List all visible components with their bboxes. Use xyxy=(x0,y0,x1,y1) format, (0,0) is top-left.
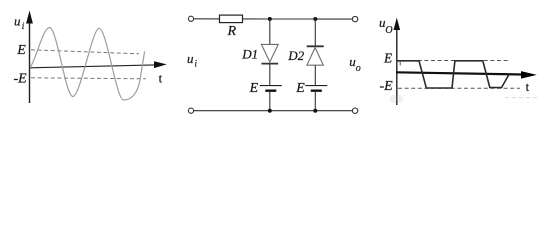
svg-text:o: o xyxy=(356,63,361,74)
wire: node B down to D2 cathode xyxy=(314,19,316,46)
svg-text:-E: -E xyxy=(14,72,28,87)
wire: D2 anode to battery E2 xyxy=(314,65,316,85)
svg-text:t: t xyxy=(526,80,530,94)
junction node D (E2 to bottom rail) xyxy=(313,109,317,113)
bottom rail wire xyxy=(194,110,353,112)
terminal: input bottom xyxy=(188,108,193,113)
terminal: output top xyxy=(352,16,357,21)
junction node B xyxy=(313,17,317,21)
svg-text:D2: D2 xyxy=(287,48,304,63)
label u_o (circuit output voltage) xyxy=(349,54,361,74)
wire: resistor R to node A xyxy=(243,18,270,20)
output clipped waveform xyxy=(397,61,509,88)
stray scan dashes below output axis xyxy=(505,97,540,99)
svg-text:E: E xyxy=(16,43,26,58)
-E level dashed line (output) xyxy=(398,87,520,89)
scan smudge near output axis bottom xyxy=(390,95,403,103)
battery E2 positive plate xyxy=(305,85,327,87)
-E level dashed line (input) xyxy=(31,78,146,79)
battery E1 negative plate xyxy=(265,89,276,91)
svg-text:D1: D1 xyxy=(241,47,258,62)
svg-text:u: u xyxy=(187,51,194,66)
wire: node A to node B xyxy=(270,18,316,20)
input sine waveform xyxy=(30,28,145,101)
terminal: output bottom xyxy=(352,108,357,113)
svg-text:E: E xyxy=(383,50,393,65)
svg-text:R: R xyxy=(227,24,237,39)
input graph vertical axis xyxy=(26,11,33,104)
terminal: input top xyxy=(188,16,193,21)
input graph t axis xyxy=(30,61,167,68)
svg-text:t: t xyxy=(159,71,163,85)
diode D1 cathode bar xyxy=(261,63,278,65)
output graph t axis (thick) xyxy=(396,71,537,79)
svg-text:E: E xyxy=(249,81,259,96)
output axis label u_O xyxy=(379,15,393,36)
wire: node B to output top terminal xyxy=(315,18,352,20)
diode D2 cathode bar xyxy=(307,45,324,47)
battery E2 negative plate xyxy=(311,89,322,91)
E level dashed line (input) xyxy=(31,50,139,54)
diode D1 xyxy=(261,44,278,62)
svg-text:E: E xyxy=(295,81,305,96)
wire: node A down to D1 anode xyxy=(269,19,271,44)
label u_i (circuit input voltage) xyxy=(187,51,198,69)
output graph vertical axis xyxy=(394,18,401,106)
junction node C (E1 to bottom rail) xyxy=(268,109,272,113)
input axis label u_i xyxy=(14,13,25,31)
battery E1 positive plate xyxy=(260,85,282,87)
output waveform start tick xyxy=(399,61,401,66)
E level dashed line (output) xyxy=(398,60,509,62)
resistor R xyxy=(220,15,243,23)
svg-text:-E: -E xyxy=(380,79,394,94)
wire: battery E1 to bottom rail xyxy=(269,91,271,111)
wire: battery E2 to bottom rail xyxy=(314,91,316,111)
svg-text:O: O xyxy=(385,25,392,36)
svg-text:u: u xyxy=(14,13,21,28)
wire: input top terminal to resistor R xyxy=(194,18,220,20)
diode D2 xyxy=(307,48,323,66)
wire: D1 cathode to battery E1 xyxy=(269,64,271,86)
junction node A xyxy=(268,17,272,21)
